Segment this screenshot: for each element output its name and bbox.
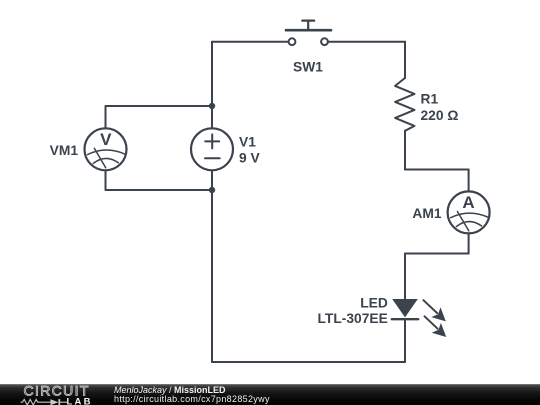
voltmeter VM1 body circle — [85, 128, 127, 170]
LED light arrow 2 head — [432, 323, 447, 337]
LED D1 triangle — [392, 299, 418, 317]
voltmeter VM1 meter face upper arc — [88, 150, 125, 155]
footer url line — [114, 394, 270, 404]
voltage source V1 body circle — [191, 128, 233, 170]
resistor R1 zigzag body — [395, 78, 414, 131]
svg-text:R1: R1 — [421, 92, 439, 107]
ammeter AM1 body circle — [448, 191, 490, 233]
wire: LED cathode down to bottom wire — [404, 319, 406, 362]
svg-text:LAB: LAB — [67, 397, 93, 405]
svg-text:VM1: VM1 — [50, 143, 79, 158]
footer bar — [0, 384, 540, 405]
switch SW1 plunger cap — [302, 20, 314, 22]
svg-text:V1: V1 — [239, 135, 256, 150]
wire: VM1 top lead up and over to node A — [106, 106, 213, 129]
wire: AM1 column vertical (passes behind meter circle) — [468, 170, 470, 254]
svg-text:220 Ω: 220 Ω — [421, 108, 459, 123]
LED D1 cathode bar — [392, 318, 418, 320]
ammeter AM1 meter face lower arc — [456, 222, 481, 227]
footer title line — [114, 385, 226, 395]
wire: top-right horizontal from SW1 right contact to R1 column — [328, 41, 405, 43]
node B junction dot (VM1 bottom / V1 bottom) — [209, 187, 215, 193]
wire: horizontal from AM1 column back to LED column — [405, 253, 469, 255]
svg-text:AM1: AM1 — [412, 206, 441, 221]
voltage source V1 minus sign — [205, 157, 220, 159]
node A junction dot (VM1 top / V1 top) — [209, 103, 215, 109]
svg-text:SW1: SW1 — [293, 60, 323, 75]
voltage source V1 plus sign — [205, 134, 219, 148]
wire: VM1 bottom lead down and over to node B — [106, 170, 213, 190]
svg-text:LED: LED — [360, 295, 388, 310]
wire: horizontal jog from R1 column to AM1 column — [405, 169, 469, 171]
wire: left vertical rail x=212 from top wire down to bottom wire — [211, 42, 213, 362]
CircuitLab logo wordmark — [0, 384, 110, 405]
ammeter AM1 meter face upper arc — [451, 213, 488, 218]
switch SW1 left contact — [289, 38, 296, 45]
LED light arrow 1 shaft — [423, 300, 437, 313]
svg-text:V: V — [100, 130, 112, 149]
svg-text:A: A — [462, 193, 474, 212]
voltmeter VM1 meter face lower arc — [93, 158, 118, 163]
wire: right column from top corner down to R1 top — [404, 42, 406, 78]
svg-text:LTL-307EE: LTL-307EE — [318, 311, 388, 326]
LED light arrow 1 head — [431, 307, 446, 321]
LED light arrow 2 shaft — [425, 316, 438, 328]
voltmeter VM1 needle — [94, 148, 105, 168]
svg-text:9 V: 9 V — [239, 151, 261, 166]
wire: LED column from corner down to LED anode — [404, 254, 406, 300]
switch SW1 plunger stem — [307, 21, 309, 31]
wire: R1 bottom to corner at y=169.5 — [404, 131, 406, 170]
wire: bottom horizontal return — [212, 361, 405, 363]
ammeter AM1 needle — [457, 211, 468, 231]
switch SW1 actuator bar — [286, 29, 331, 32]
logo resistor doodle — [21, 399, 51, 405]
wire: top-left horizontal from node column to SW1 left contact — [212, 41, 288, 43]
logo diode doodle — [50, 399, 58, 405]
switch SW1 right contact — [321, 38, 328, 45]
